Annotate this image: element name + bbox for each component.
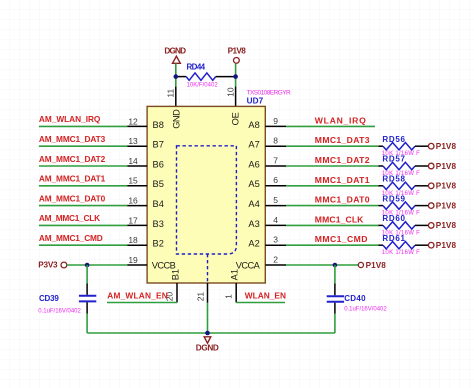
power port P1V8 (top) (228, 46, 247, 63)
junction P3V3 branch (85, 263, 90, 268)
junction at RD44 left / pin 11 (174, 74, 179, 79)
net label AM_MMC1_CMD (39, 233, 103, 243)
svg-text:RD60: RD60 (382, 214, 405, 223)
svg-text:P1V8: P1V8 (436, 182, 457, 191)
svg-text:B5: B5 (153, 179, 164, 189)
net label AM_MMC1_DAT2 (39, 154, 106, 164)
svg-text:AM_MMC1_CMD: AM_MMC1_CMD (39, 233, 103, 243)
svg-text:0.1uF/16V/0402: 0.1uF/16V/0402 (38, 308, 81, 314)
resistor RD58 (378, 175, 428, 197)
net label MMC1_DAT2 (315, 155, 370, 165)
wire DGND to node (175, 63, 177, 86)
svg-text:OE: OE (231, 112, 241, 125)
svg-text:VCCA: VCCA (236, 261, 261, 271)
net label AM_MMC1_CLK (39, 213, 100, 223)
resistor RD60 (378, 214, 428, 236)
power port P1V8 (RD58 pull-up) (428, 182, 456, 191)
wire MMC1_CLK (286, 224, 378, 226)
resistor RD57 (378, 155, 428, 177)
wire VCCA to P1V8 (286, 264, 358, 266)
wire MMC1_DAT0 (286, 205, 378, 207)
svg-text:19: 19 (128, 255, 138, 265)
power port P1V8 (RD61 pull-up) (428, 241, 456, 250)
net label WLAN_EN (245, 291, 286, 301)
svg-text:GND: GND (171, 109, 181, 129)
power port DGND (bottom) (196, 337, 219, 353)
pin 6 (A5) (248, 175, 286, 189)
svg-text:P1V8: P1V8 (436, 221, 457, 230)
pin name A1 (rotated) (230, 269, 240, 280)
wire P3V3 to pin 19 (67, 264, 128, 266)
svg-text:AM_WLAN_IRQ: AM_WLAN_IRQ (39, 114, 101, 124)
svg-text:AM_MMC1_DAT1: AM_MMC1_DAT1 (39, 174, 106, 184)
pin 12 (B8) (127, 116, 164, 130)
pin 18 (B2) (127, 235, 164, 249)
wire MMC1_CMD (286, 244, 378, 246)
svg-text:AM_MMC1_DAT3: AM_MMC1_DAT3 (39, 134, 106, 144)
junction at RD44 right / pin 10 (233, 74, 238, 79)
pin name GND (rotated) (171, 109, 181, 129)
junction P1V8 branch (333, 263, 338, 268)
svg-text:AM_WLAN_EN: AM_WLAN_EN (107, 291, 167, 301)
pin 16 (B4) (127, 196, 164, 210)
net label MMC1_CLK (315, 214, 364, 224)
pin 21 (pad) (195, 283, 207, 303)
power port P1V8 (RD59 pull-up) (428, 201, 456, 210)
svg-text:A2: A2 (248, 239, 259, 249)
svg-text:MMC1_DAT3: MMC1_DAT3 (315, 135, 370, 145)
wire MMC1_DAT3 (286, 145, 378, 147)
svg-text:16: 16 (128, 196, 138, 206)
wire bottom ground rail (87, 332, 335, 334)
capacitor CD39 (38, 284, 96, 315)
svg-text:RD58: RD58 (382, 175, 405, 184)
net label AM_MMC1_DAT1 (39, 174, 106, 184)
pin 10 (OE) (225, 87, 235, 107)
svg-text:DGND: DGND (196, 343, 219, 352)
dashed internal outline (177, 146, 237, 283)
wire WLAN_EN (236, 302, 285, 304)
svg-text:TXS0108ERGYR: TXS0108ERGYR (247, 89, 291, 96)
svg-text:B7: B7 (153, 140, 164, 150)
pin 8 (A7) (248, 136, 286, 150)
pin 3 (A2) (248, 235, 286, 249)
svg-text:RD44: RD44 (187, 63, 206, 72)
power port P1V8 (RD56 pull-up) (428, 142, 456, 151)
svg-text:B1: B1 (171, 269, 181, 280)
svg-text:CD39: CD39 (39, 294, 59, 303)
wire AM_WLAN_EN (107, 302, 177, 304)
svg-text:VCCB: VCCB (152, 261, 176, 271)
svg-text:1: 1 (224, 294, 234, 299)
svg-text:17: 17 (128, 215, 138, 225)
svg-text:B8: B8 (153, 120, 164, 130)
svg-text:A3: A3 (248, 219, 259, 229)
svg-text:0.1uF/16V/0402: 0.1uF/16V/0402 (344, 306, 387, 312)
pin 17 (B3) (127, 215, 164, 229)
svg-text:MMC1_CMD: MMC1_CMD (315, 234, 368, 244)
wire WLAN_IRQ (286, 125, 375, 127)
svg-text:12: 12 (128, 116, 138, 126)
svg-text:B2: B2 (153, 239, 164, 249)
wire P1V8 branch down (334, 265, 336, 284)
pin 20 (B1) (165, 283, 178, 303)
svg-text:RD57: RD57 (382, 155, 405, 164)
svg-text:P1V8: P1V8 (436, 142, 457, 151)
power port P1V8 (RD57 pull-up) (428, 162, 456, 171)
pin 5 (A4) (248, 195, 286, 209)
svg-text:RD59: RD59 (382, 194, 405, 203)
pin 11 (GND) (166, 87, 176, 107)
svg-text:RD56: RD56 (382, 135, 405, 144)
resistor RD61 (378, 234, 428, 256)
net label MMC1_DAT0 (315, 195, 370, 205)
svg-text:10: 10 (225, 87, 235, 97)
svg-text:MMC1_DAT2: MMC1_DAT2 (315, 155, 370, 165)
svg-text:6: 6 (273, 175, 278, 185)
wire P3V3 branch down (86, 265, 88, 284)
svg-text:AM_MMC1_DAT0: AM_MMC1_DAT0 (39, 193, 106, 203)
net label MMC1_DAT1 (315, 175, 370, 185)
svg-text:3: 3 (273, 235, 278, 245)
wire AM_MMC1_DAT1 (39, 185, 127, 187)
svg-text:MMC1_CLK: MMC1_CLK (315, 214, 364, 224)
svg-text:P1V8: P1V8 (436, 162, 457, 171)
wire MMC1_DAT1 (286, 185, 378, 187)
svg-text:21: 21 (195, 292, 205, 302)
svg-text:WLAN_EN: WLAN_EN (245, 291, 286, 301)
svg-text:15: 15 (128, 176, 138, 186)
svg-text:B3: B3 (153, 219, 164, 229)
pin 19 (VCCB) (127, 255, 176, 271)
svg-text:7: 7 (273, 155, 278, 165)
svg-text:8: 8 (273, 136, 278, 146)
junction bottom rail / pin 21 (205, 331, 210, 336)
resistor RD56 (378, 135, 428, 157)
pin 9 (A8) (248, 116, 286, 130)
resistor RD59 (378, 194, 428, 216)
wire CD39 to bottom rail (86, 314, 88, 333)
svg-text:10K/F/0402: 10K/F/0402 (187, 83, 219, 89)
svg-text:A7: A7 (248, 140, 259, 150)
svg-text:RD61: RD61 (382, 234, 405, 243)
svg-text:14: 14 (128, 156, 138, 166)
capacitor CD40 (327, 284, 388, 314)
svg-text:WLAN_IRQ: WLAN_IRQ (315, 115, 366, 125)
svg-text:CD40: CD40 (344, 294, 366, 303)
pin 13 (B7) (127, 136, 164, 150)
svg-text:AM_MMC1_DAT2: AM_MMC1_DAT2 (39, 154, 106, 164)
net label WLAN_IRQ (315, 115, 366, 125)
svg-text:A1: A1 (230, 269, 240, 280)
svg-text:DGND: DGND (164, 46, 186, 55)
svg-text:A4: A4 (248, 199, 259, 209)
svg-text:13: 13 (128, 136, 138, 146)
net label MMC1_CMD (315, 234, 368, 244)
svg-text:10K 1/16W F: 10K 1/16W F (382, 250, 420, 256)
wire CD40 to bottom rail (334, 314, 336, 333)
pin 1 (A1) (224, 283, 237, 303)
power port P1V8 (RD60 pull-up) (428, 221, 456, 230)
wire P1V8 to node (235, 63, 237, 86)
svg-text:4: 4 (273, 215, 278, 225)
power port P3V3 (38, 261, 67, 270)
svg-text:P1V8: P1V8 (366, 261, 387, 270)
svg-text:A5: A5 (248, 179, 259, 189)
svg-text:A6: A6 (248, 159, 259, 169)
wire AM_MMC1_DAT0 (39, 205, 127, 207)
wire AM_MMC1_CMD (39, 244, 127, 246)
wire AM_WLAN_IRQ (39, 125, 127, 127)
svg-text:5: 5 (273, 195, 278, 205)
wire pin 21 to bottom rail (207, 303, 209, 333)
net label AM_MMC1_DAT0 (39, 193, 106, 203)
pin 15 (B5) (127, 176, 164, 190)
svg-text:11: 11 (166, 89, 176, 98)
svg-text:P1V8: P1V8 (436, 201, 457, 210)
wire MMC1_DAT2 (286, 165, 378, 167)
pin 14 (B6) (127, 156, 164, 170)
svg-text:AM_MMC1_CLK: AM_MMC1_CLK (39, 213, 100, 223)
svg-text:2: 2 (273, 254, 278, 264)
wire AM_MMC1_DAT2 (39, 165, 127, 167)
pin 4 (A3) (248, 215, 286, 229)
net label AM_WLAN_IRQ (39, 114, 101, 124)
svg-text:B4: B4 (153, 199, 164, 209)
pin 2 (VCCA) (236, 254, 286, 270)
wire AM_MMC1_DAT3 (39, 145, 127, 147)
pin 7 (A6) (248, 155, 286, 169)
svg-text:B6: B6 (153, 159, 164, 169)
svg-text:18: 18 (128, 235, 138, 245)
svg-text:P3V3: P3V3 (38, 261, 58, 270)
comment TXS0108ERGYR (247, 89, 291, 96)
resistor RD44 (176, 63, 236, 89)
svg-text:9: 9 (273, 116, 278, 126)
net label MMC1_DAT3 (315, 135, 370, 145)
power port DGND (top) (164, 46, 186, 63)
wire AM_MMC1_CLK (39, 224, 127, 226)
svg-text:P1V8: P1V8 (228, 46, 247, 55)
IC body UD7 rectangle (147, 106, 265, 283)
designator UD7 (247, 97, 264, 106)
svg-text:UD7: UD7 (247, 97, 264, 106)
svg-text:A8: A8 (248, 120, 259, 130)
power port P1V8 (VCCA) (358, 261, 386, 270)
net label AM_MMC1_DAT3 (39, 134, 106, 144)
svg-text:MMC1_DAT0: MMC1_DAT0 (315, 195, 370, 205)
svg-text:MMC1_DAT1: MMC1_DAT1 (315, 175, 370, 185)
svg-text:P1V8: P1V8 (436, 241, 457, 250)
pin name OE (rotated) (231, 112, 241, 125)
pin name B1 (rotated) (171, 269, 181, 280)
net label AM_WLAN_EN (107, 291, 167, 301)
